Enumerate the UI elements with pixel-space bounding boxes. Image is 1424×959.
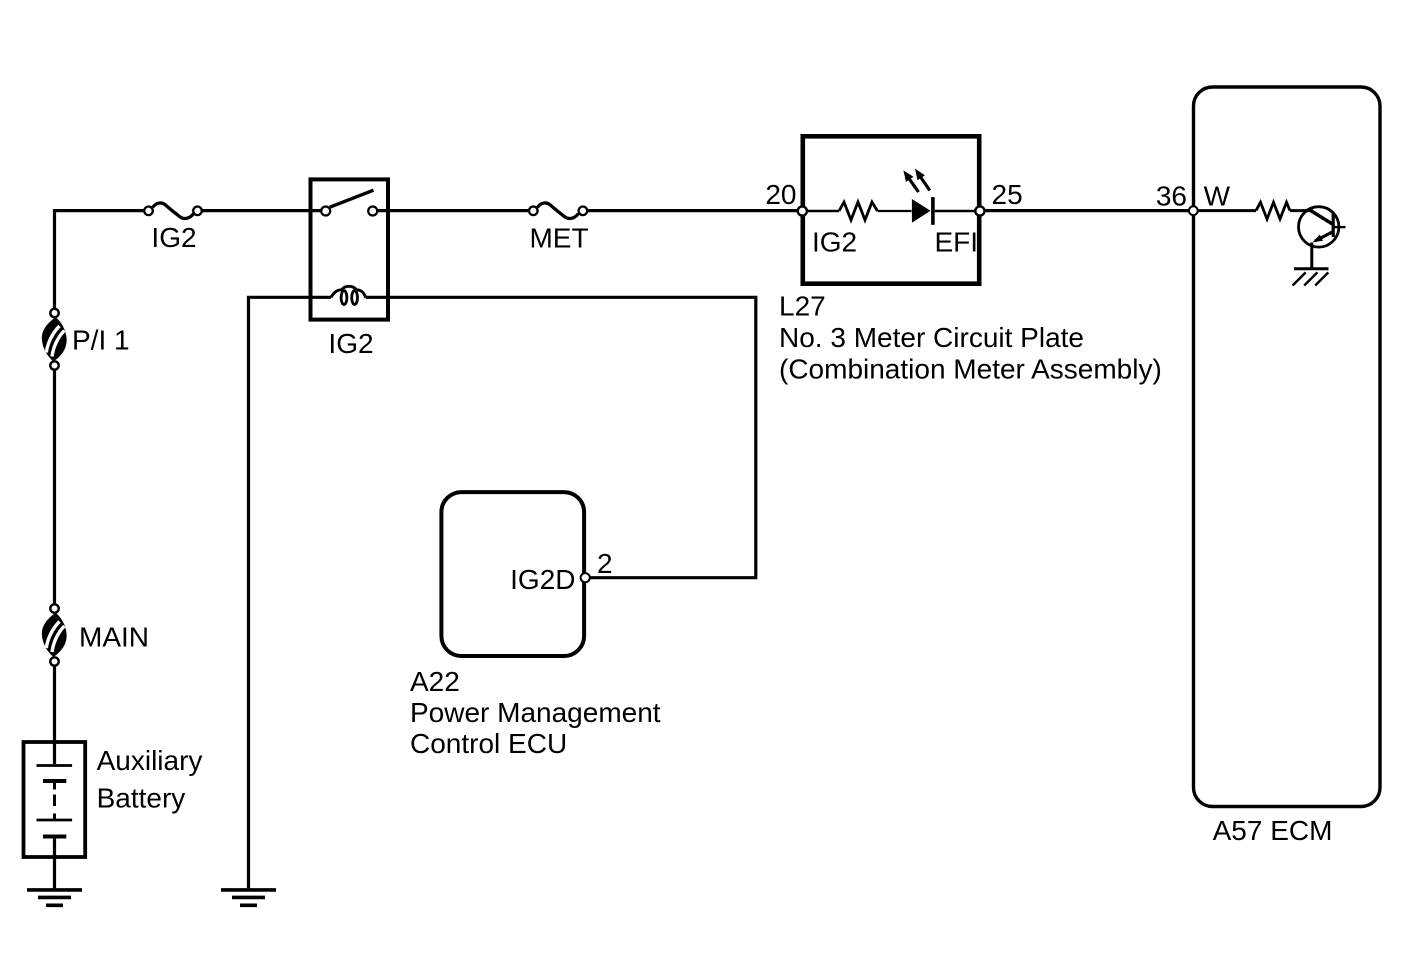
svg-text:36: 36 bbox=[1156, 181, 1187, 212]
wire: relay to fuse MET bbox=[378, 209, 530, 212]
fuse MET bbox=[529, 203, 587, 219]
wire: resistor to transistor bbox=[1290, 209, 1313, 212]
svg-text:Battery: Battery bbox=[97, 783, 186, 814]
relay coil bbox=[331, 286, 366, 297]
wire: P/I 1 to MAIN bbox=[53, 370, 56, 604]
relay switch contact right bbox=[368, 207, 377, 216]
wire: resistor to LED bbox=[878, 210, 912, 212]
svg-text:Control ECU: Control ECU bbox=[410, 728, 567, 759]
wire: terminal 36 to ECM resistor bbox=[1198, 209, 1256, 212]
svg-text:L27: L27 bbox=[779, 291, 826, 322]
fuse IG2 bbox=[144, 203, 202, 219]
LED arrow 2 bbox=[921, 177, 930, 191]
auxiliary battery bbox=[24, 742, 86, 858]
relay switch arm bbox=[330, 190, 374, 207]
A22 power management control ECU box bbox=[441, 492, 584, 656]
wire: battery to ground bbox=[53, 857, 56, 888]
svg-text:IG2: IG2 bbox=[151, 222, 196, 253]
svg-text:Auxiliary: Auxiliary bbox=[97, 745, 203, 776]
svg-text:2: 2 bbox=[597, 548, 613, 579]
fusible link MAIN bbox=[42, 604, 67, 665]
ground (relay coil) bbox=[221, 890, 276, 905]
svg-text:MET: MET bbox=[529, 223, 588, 254]
LED EFI diode bbox=[912, 199, 931, 223]
terminal 20 bbox=[798, 206, 807, 215]
svg-text:20: 20 bbox=[765, 179, 796, 210]
wire: MAIN to battery bbox=[53, 666, 56, 742]
wire: fuse IG2 to relay switch bbox=[202, 209, 321, 212]
chassis ground (ECM) bbox=[1293, 269, 1329, 286]
svg-text:EFI: EFI bbox=[935, 227, 979, 258]
terminal 25 bbox=[975, 206, 984, 215]
wire: terminal 25 to ECM terminal 36 bbox=[985, 209, 1190, 212]
wire: relay coil right to A22 pin 2 bbox=[366, 297, 756, 577]
terminal 36 bbox=[1189, 206, 1198, 215]
ground (battery) bbox=[27, 890, 82, 905]
wire: fuse MET to L27 terminal 20 bbox=[588, 209, 800, 212]
resistor (ECM) bbox=[1256, 202, 1290, 219]
relay switch contact left bbox=[321, 207, 330, 216]
wire: LED to terminal 25 bbox=[935, 210, 977, 212]
svg-text:A57 ECM: A57 ECM bbox=[1213, 815, 1333, 846]
svg-text:No. 3 Meter Circuit Plate: No. 3 Meter Circuit Plate bbox=[779, 322, 1084, 353]
relay IG2 box bbox=[311, 179, 389, 319]
wire: relay coil left to ground bbox=[249, 297, 332, 888]
wire: battery feed, top-left corner down left side bbox=[55, 211, 144, 309]
LED arrow 1 bbox=[909, 179, 919, 193]
svg-text:IG2D: IG2D bbox=[510, 564, 575, 595]
pin 2 terminal bbox=[581, 573, 590, 582]
wire: terminal 20 to resistor bbox=[805, 210, 839, 213]
svg-text:IG2: IG2 bbox=[328, 328, 373, 359]
wire: transistor emitter to ground bbox=[1310, 243, 1313, 269]
svg-text:IG2: IG2 bbox=[812, 227, 857, 258]
fusible link P/I 1 bbox=[42, 309, 67, 370]
svg-text:P/I 1: P/I 1 bbox=[72, 325, 130, 356]
transistor (ECM output) bbox=[1299, 207, 1346, 247]
svg-text:A22: A22 bbox=[410, 666, 460, 697]
resistor IG2 (meter) bbox=[839, 202, 878, 220]
svg-text:MAIN: MAIN bbox=[79, 622, 149, 653]
svg-text:25: 25 bbox=[992, 179, 1023, 210]
svg-text:(Combination Meter Assembly): (Combination Meter Assembly) bbox=[779, 354, 1162, 385]
svg-text:W: W bbox=[1204, 181, 1231, 212]
ECM A57 box bbox=[1194, 87, 1381, 807]
L27 meter circuit plate box bbox=[803, 136, 979, 283]
svg-text:Power Management: Power Management bbox=[410, 697, 661, 728]
